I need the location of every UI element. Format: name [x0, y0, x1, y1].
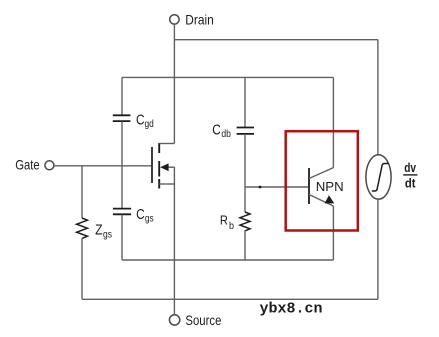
- dv/dt source U2: [366, 155, 391, 199]
- npn emitter arrow: [325, 195, 335, 203]
- label Cdb: [212, 123, 231, 140]
- npn base bar: [308, 168, 310, 204]
- wire gate horizontal: [54, 165, 152, 167]
- wire source vertical: [173, 167, 175, 314]
- wire base horizontal: [245, 186, 309, 188]
- capacitor Cdb: [237, 128, 254, 134]
- npn emitter diagonal: [309, 195, 333, 207]
- svg-text:ybx8.cn: ybx8.cn: [260, 301, 323, 318]
- wire collector vertical (box right upper): [332, 77, 334, 167]
- resistor Zgs: [77, 218, 88, 238]
- label Zgs: [95, 223, 112, 241]
- svg-text:C: C: [136, 207, 145, 223]
- wire left branch below Cgs: [121, 215, 123, 260]
- mosfet gate bar: [151, 147, 153, 183]
- wire Zgs branch lower: [81, 238, 83, 299]
- wire Rb branch lower: [244, 230, 246, 260]
- wire left branch above Cgd: [121, 77, 123, 115]
- terminal Drain: [170, 11, 214, 27]
- wire dv/dt branch lower: [377, 199, 379, 299]
- wire top horizontal to dv/dt branch: [174, 39, 378, 41]
- terminal Gate: [15, 156, 54, 172]
- mosfet body arrow: [160, 163, 169, 171]
- svg-text:Drain: Drain: [185, 11, 214, 27]
- svg-text:R: R: [220, 213, 228, 228]
- wire Zgs branch upper: [81, 166, 83, 218]
- svg-text:NPN: NPN: [316, 179, 344, 194]
- wire dv/dt branch upper: [377, 40, 379, 156]
- wire left branch between Cgd and Cgs: [121, 122, 123, 209]
- MOSFET Q1: [152, 143, 174, 189]
- svg-text:Gate: Gate: [15, 156, 40, 172]
- wire Cdb branch upper: [244, 77, 246, 127]
- svg-text:gs: gs: [103, 228, 112, 240]
- label Cgs: [136, 207, 154, 224]
- wire bottom rail: [82, 298, 378, 300]
- mosfet channel segment bottom: [158, 179, 160, 189]
- label dv/dt: [403, 160, 417, 190]
- label Rb: [220, 213, 234, 232]
- transistor NPN Q2: [309, 168, 334, 206]
- svg-text:Z: Z: [95, 223, 103, 239]
- resistor Rb: [240, 212, 250, 231]
- svg-text:Source: Source: [185, 312, 221, 328]
- svg-text:dt: dt: [405, 176, 416, 191]
- npn collector diagonal: [309, 168, 333, 179]
- svg-text:db: db: [221, 128, 231, 140]
- svg-text:C: C: [212, 123, 221, 139]
- wire emitter vertical (box right lower): [332, 206, 334, 260]
- wire mosfet body lead: [165, 166, 174, 168]
- wire inner box top: [122, 76, 333, 78]
- label Cgd: [136, 112, 154, 130]
- junction dot on base wire: [259, 186, 262, 189]
- mosfet channel segment top: [158, 143, 160, 153]
- wire Cdb branch middle: [244, 134, 246, 212]
- terminal Source: [169, 312, 221, 328]
- wire mosfet drain lead: [159, 143, 174, 145]
- svg-text:b: b: [229, 220, 234, 232]
- wire drain vertical: [173, 24, 175, 143]
- capacitor Cgs: [113, 209, 131, 215]
- svg-text:C: C: [136, 112, 145, 128]
- red highlight box: [286, 131, 358, 230]
- wire inner box bottom: [122, 259, 333, 261]
- mosfet channel segment middle: [158, 161, 160, 177]
- svg-text:gd: gd: [145, 118, 154, 130]
- wire mosfet source lead: [159, 183, 174, 185]
- svg-text:dv: dv: [404, 160, 416, 175]
- capacitor Cgd: [113, 115, 131, 121]
- svg-text:gs: gs: [145, 212, 154, 224]
